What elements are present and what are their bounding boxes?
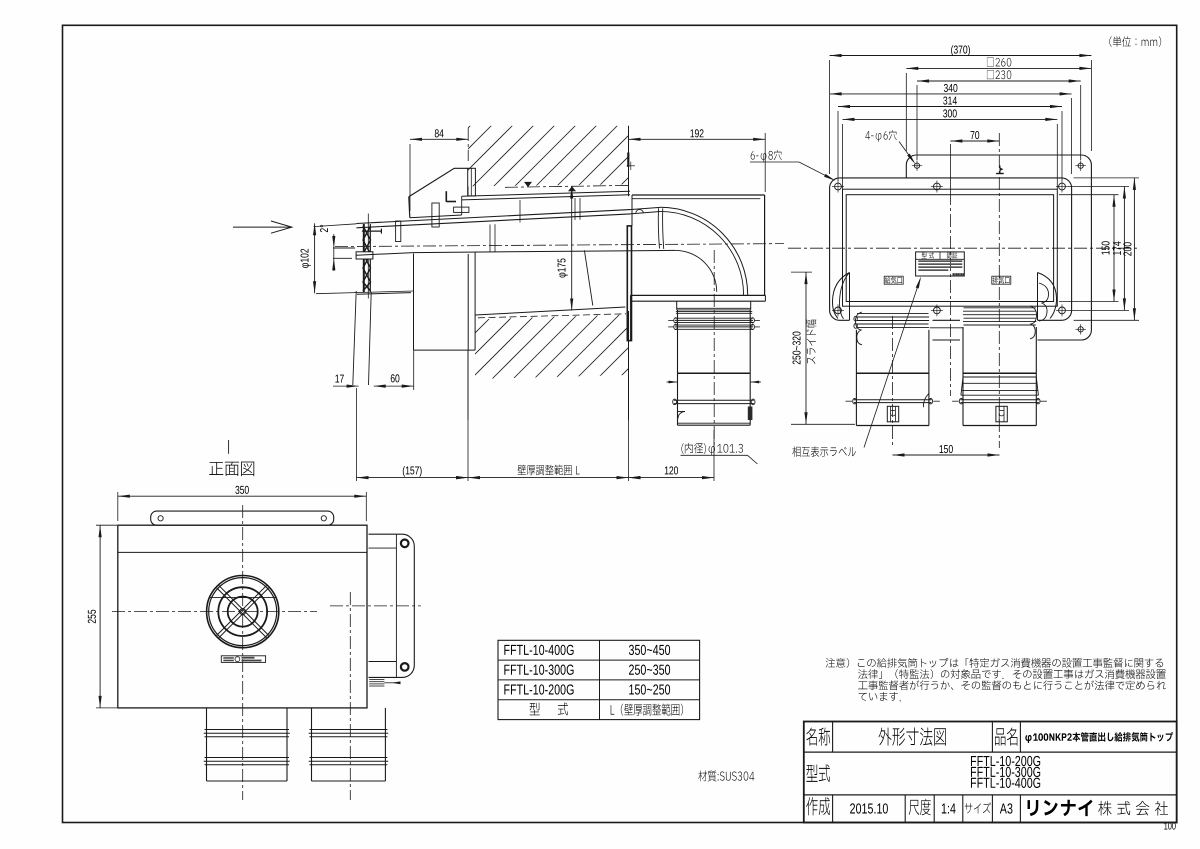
intake port label 給気口 [884, 276, 903, 284]
vertical exhaust pipe (section) [677, 310, 679, 425]
dim 60 [374, 385, 414, 387]
intake pipe tip lower extension [353, 291, 356, 385]
pipe centerline (section) [713, 250, 715, 448]
duct bottom edge outdoors [357, 253, 414, 256]
exhaust adapter ring band 3 [675, 324, 753, 326]
rear left pipe sheet curl [923, 393, 929, 407]
exhaust port label 排気口 [992, 276, 1011, 284]
title 作成 [806, 797, 830, 815]
label 4-phi6 holes [865, 130, 896, 142]
table row FFTL-10-400G [504, 645, 573, 655]
dim 84 (hood to wall) [409, 144, 411, 211]
title 名称 [806, 727, 830, 745]
rear view centerline vertical [998, 133, 1000, 448]
section view direction arrow [233, 226, 292, 228]
dim 260 square [905, 73, 907, 151]
dim phi175 (outer pipe) [571, 187, 573, 311]
rear plate A phi6 slot line between pipes [930, 327, 963, 329]
wall outdoor face line [467, 187, 469, 197]
front plate centerline [330, 605, 421, 607]
rear left pipe collar crimp curl [855, 312, 862, 345]
unit note (単位:mm) [1109, 36, 1161, 47]
rear left pipe collar [857, 313, 929, 315]
inner pipe joint mark [396, 221, 401, 242]
duct top edge extension to dim [314, 224, 357, 227]
duct entering chamber [630, 207, 660, 209]
rear left pipe centerline [892, 316, 894, 448]
Rinnai logo [1028, 800, 1093, 816]
rear view: wall plate (front) [840, 178, 1072, 320]
front view body [118, 525, 367, 708]
pipe slide seam [678, 372, 751, 374]
dim (370) [829, 60, 831, 174]
exhaust adapter neck [676, 301, 678, 310]
dim phi102 (intake tip) [316, 291, 413, 294]
label 6-phi8 holes [751, 150, 782, 162]
fan grille chord line [210, 597, 277, 599]
inner pipe joint mark 2 [432, 203, 439, 227]
pipe bottom clips [678, 411, 686, 413]
wall anchor screw indoor side [627, 153, 629, 168]
lower terminal box against wall [413, 254, 415, 351]
nameplate label on rear [916, 252, 965, 276]
dim 314 [837, 111, 839, 181]
front plate mounting holes [401, 540, 409, 548]
dim 150 right [1059, 194, 1119, 196]
fan grille middle ring [218, 587, 267, 636]
rear right pipe collar crimp curl [1030, 306, 1037, 339]
4-phi6 holes on slide plate [914, 163, 919, 168]
right pipe crimp curls [1039, 283, 1049, 321]
rear left pipe body [855, 330, 857, 426]
dim 150 bottom (pipe pitch) [892, 430, 894, 459]
section duct centerline [335, 244, 784, 247]
title 尺度 [909, 799, 931, 815]
dim 230 square [916, 85, 918, 160]
dim 70 [950, 140, 999, 142]
size A3 [1000, 803, 1013, 813]
wall plate left sheet flap [832, 273, 849, 319]
rear right pipe lower ring [960, 399, 1039, 401]
outer pipe hidden top centerline with slope markers [505, 185, 629, 187]
pipe seam side arrows [667, 381, 678, 383]
fan grille cross bars [217, 586, 269, 638]
rear left pipe clamp screw [887, 406, 898, 422]
front body top seam [118, 551, 367, 553]
elbow inlet joint [658, 208, 659, 248]
chamber top drain bump [636, 210, 644, 213]
screen top tab [362, 230, 382, 232]
drain box under duct (outdoor) [357, 293, 411, 295]
inner duct bottom edge to elbow [414, 250, 676, 252]
front left pipe rings [205, 729, 290, 731]
dim wall-range L [468, 477, 629, 479]
bottom dims extension lines [356, 388, 358, 481]
chamber bottom flange [630, 294, 765, 296]
dim 255 front [96, 524, 117, 526]
title 外形寸法図 [879, 728, 946, 746]
pipe lower ring [674, 399, 754, 401]
front view centerlines [242, 505, 244, 800]
company name 株式会社 [1098, 801, 1168, 816]
rear left pipe lower ring [854, 399, 932, 401]
damper box on duct top [454, 207, 469, 212]
date 2015.10 [850, 803, 888, 813]
material note [698, 770, 754, 781]
rear right pipe collar [964, 307, 1036, 309]
inner pipe slip joint (slanted) [584, 250, 592, 305]
wall plate right sheet flap [1038, 273, 1057, 319]
dim 340 [1071, 98, 1073, 174]
rear right pipe adapter cone [963, 372, 1036, 374]
dim 200 right [1074, 177, 1139, 179]
chamber top inner line [632, 198, 760, 200]
title 型式 [806, 764, 830, 782]
rear view centerline horizontal [788, 247, 1138, 249]
product name [1025, 732, 1173, 743]
dim 174 right [1068, 186, 1129, 188]
outer pipe bottom edge (in wall) [475, 307, 625, 315]
wall plate recess inner [846, 195, 1053, 302]
table row FFTL-10-200G [504, 684, 573, 694]
indoor chamber box [632, 194, 765, 196]
front nameplate [221, 656, 265, 663]
hood anchor block in wall [468, 168, 476, 196]
front view stray projection line [228, 440, 230, 454]
model range table [498, 640, 700, 719]
dim 300 [842, 124, 844, 189]
exhaust adapter ring band 1 [676, 310, 752, 312]
hood inner baffle [445, 191, 447, 202]
title サイズ [965, 802, 991, 813]
sheet number 100 [1164, 822, 1175, 829]
rear right pipe body [962, 327, 964, 426]
wall plate recess outer [843, 189, 1058, 306]
dim (157) [357, 477, 469, 479]
front plate slide pointer [369, 679, 384, 681]
exhaust adapter ring band 2 [675, 317, 753, 319]
outdoor hood outline [409, 168, 468, 196]
label (inner dia) phi101.3 [681, 443, 742, 455]
dim 17 [333, 385, 359, 387]
tip collar band [356, 252, 373, 259]
front right pipe rings [310, 729, 388, 731]
fan grille inner ring [228, 597, 258, 627]
duct internal joint lines [489, 225, 491, 253]
elbow outer arc [660, 207, 748, 295]
intake pipe tip rim [367, 214, 369, 299]
up-mark [996, 173, 1004, 175]
dim 2deg slope [320, 225, 328, 232]
rear left pipe seam [856, 372, 929, 374]
fan grille outer rings [207, 576, 279, 648]
6-phi8 holes on wall plate [835, 183, 842, 190]
outer pipe top (in wall), double wall [462, 191, 630, 196]
front right wall plate (edge-on) [369, 534, 415, 677]
title block table [804, 722, 1177, 823]
front view title 正面図 [209, 462, 254, 476]
rear view aux vertical line [949, 144, 951, 192]
rear right pipe clamp screw [996, 406, 1007, 422]
duct top edge (sloped 2deg) [357, 210, 631, 224]
table row FFTL-10-300G [504, 665, 573, 675]
wall indoor face line [628, 126, 630, 197]
title 品名 [995, 728, 1017, 746]
front right pipe [311, 708, 313, 781]
scale 1:4 [942, 803, 956, 813]
fan hub [240, 609, 246, 615]
dim 350 front [117, 492, 119, 521]
table row 型式 [530, 703, 568, 716]
front left pipe [206, 708, 208, 781]
rear view: slide plate (back) [916, 155, 1091, 340]
caution note text block [826, 658, 1164, 668]
hood lower body [410, 215, 462, 218]
intake pipe tip with bird screen [363, 224, 365, 293]
indoor wall plate [627, 226, 631, 341]
model list [971, 756, 1040, 766]
front top bracket [151, 511, 334, 525]
dim 120 [629, 477, 715, 479]
dim slide width 250-320 [791, 271, 812, 273]
dim 192 (wall to chamber) [764, 133, 766, 192]
label mutual display sticker [792, 446, 855, 456]
elbow inner arc [675, 250, 716, 291]
